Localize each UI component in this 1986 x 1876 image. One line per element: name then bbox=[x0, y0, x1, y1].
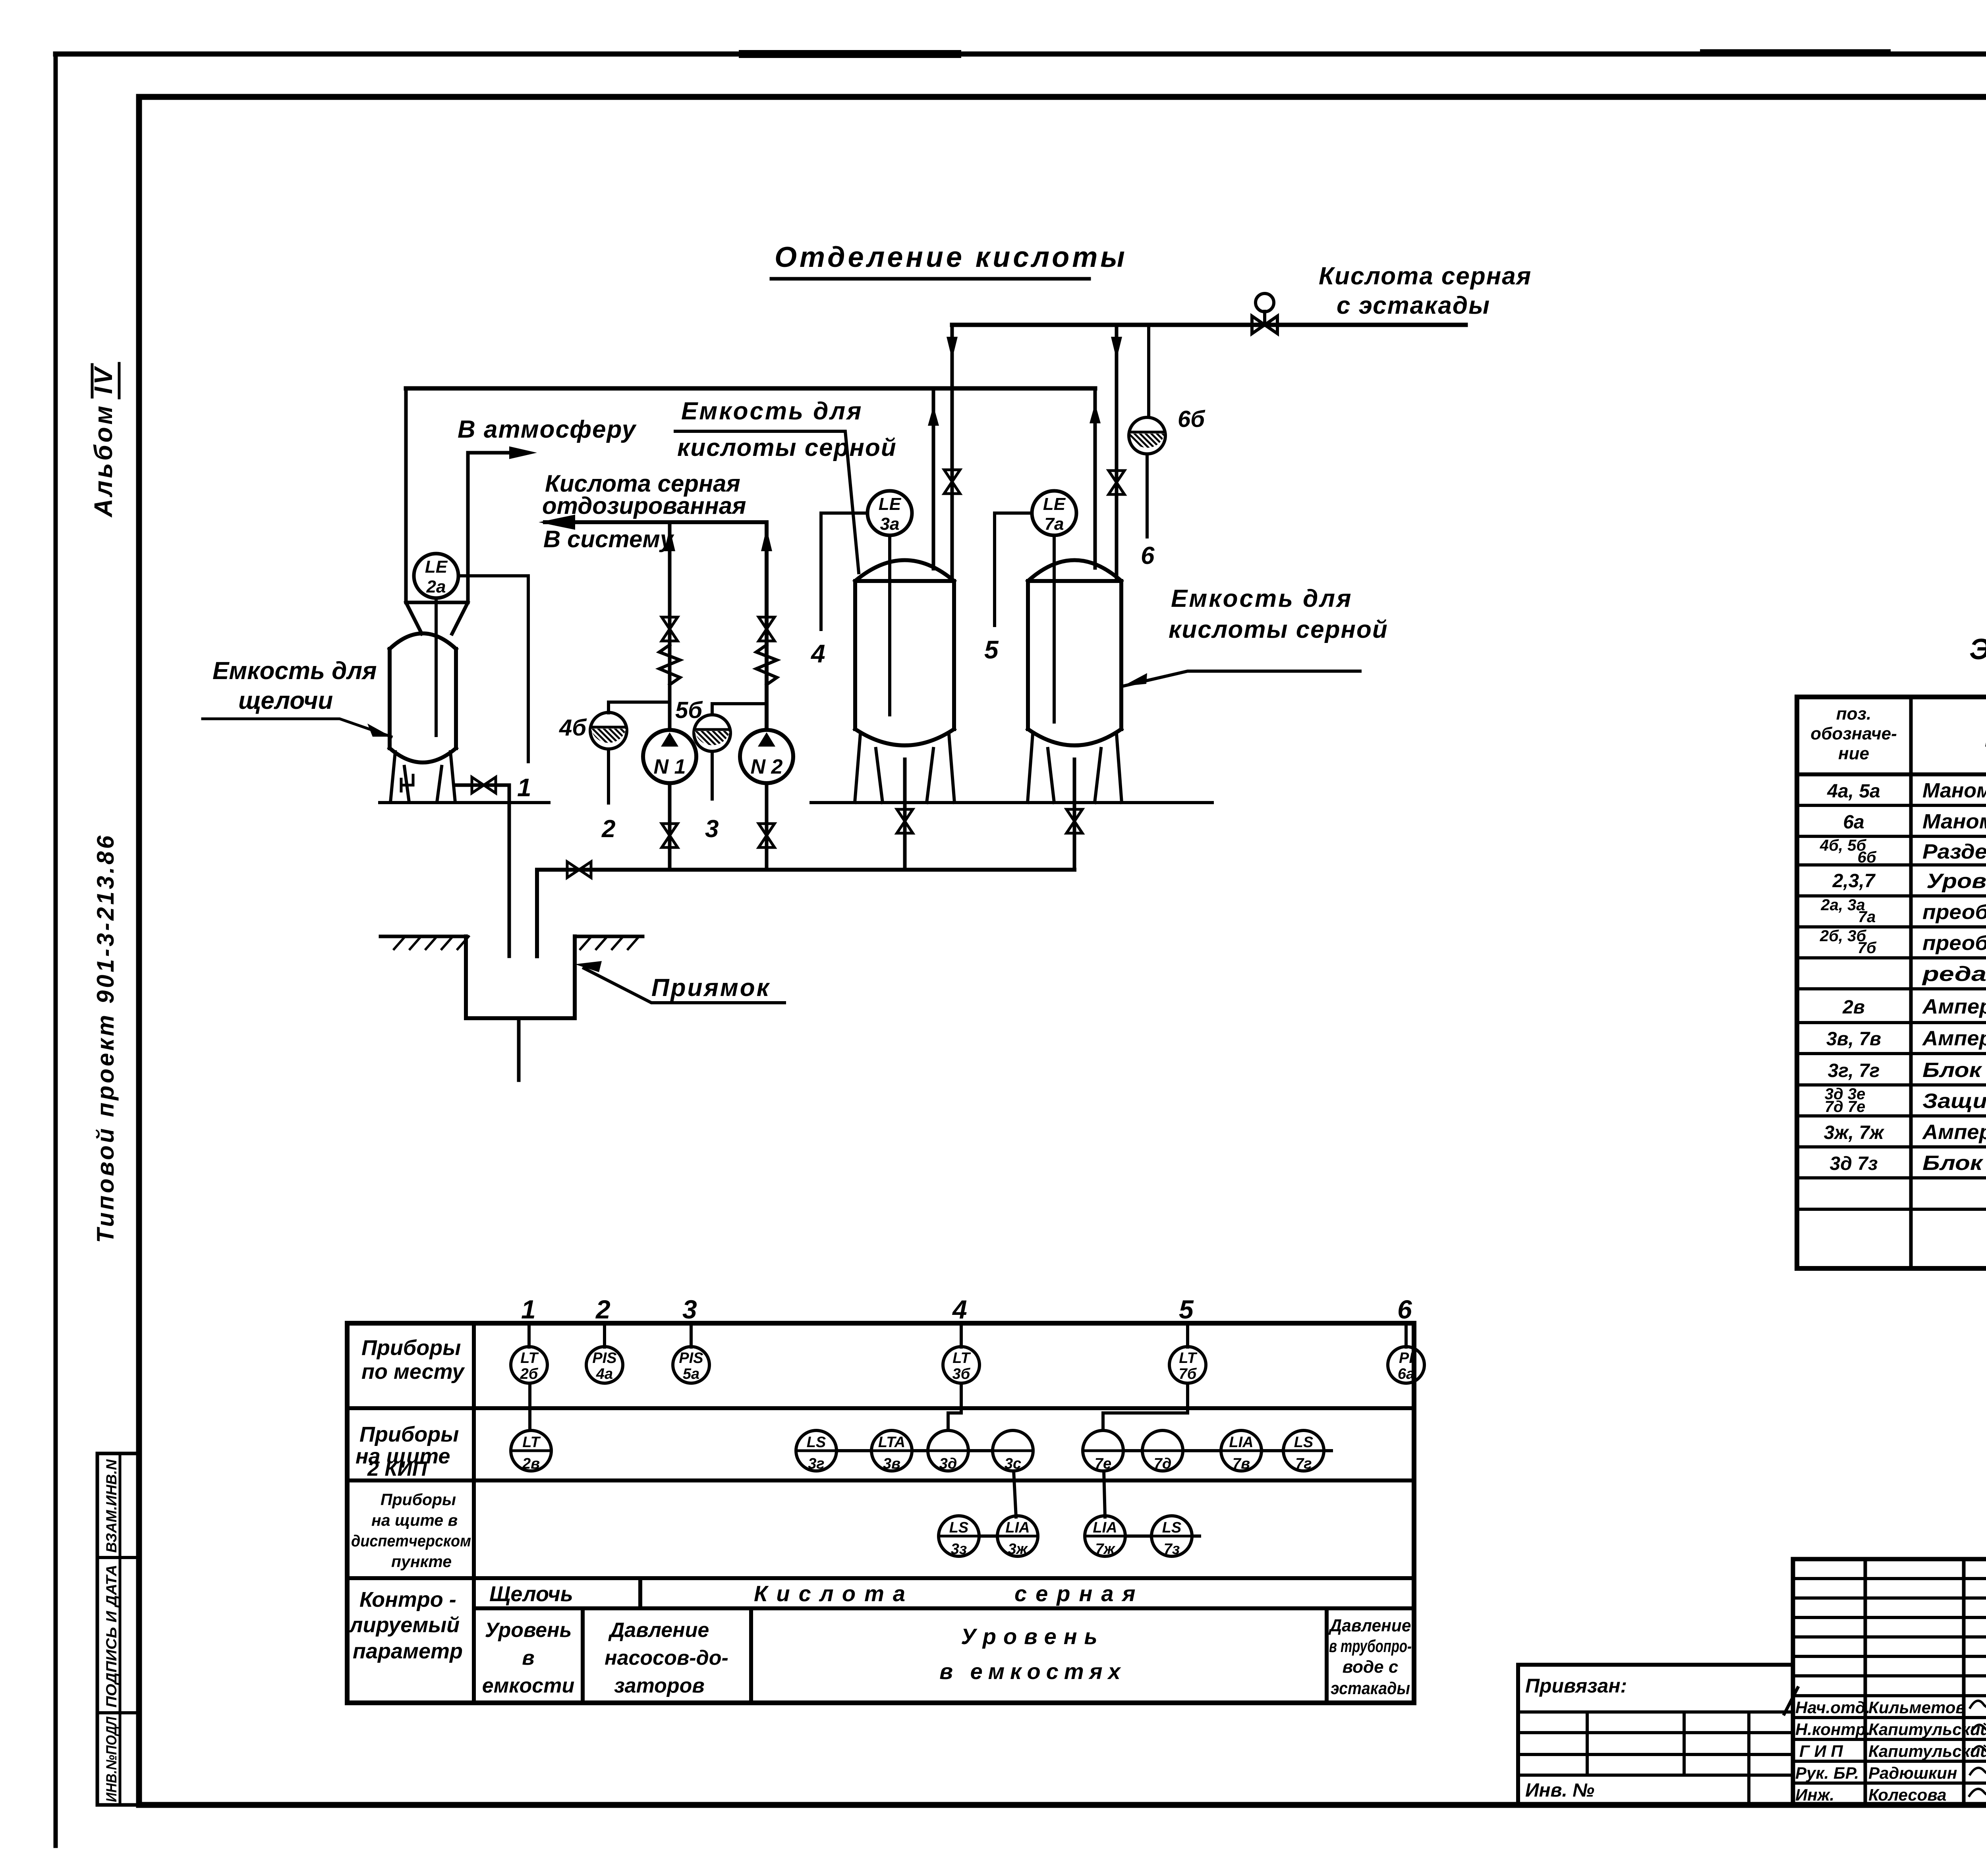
instrument circle LT 3б bbox=[943, 1347, 979, 1383]
svg-text:LT: LT bbox=[1179, 1350, 1197, 1366]
svg-text:Кильметов: Кильметов bbox=[1868, 1698, 1966, 1717]
svg-text:редающий ПИ-0-11: редающий ПИ-0-11 bbox=[1921, 963, 1986, 986]
svg-text:4а: 4а bbox=[596, 1366, 613, 1382]
svg-text:Инв. №: Инв. № bbox=[1525, 1780, 1594, 1801]
svg-text:6б: 6б bbox=[1178, 406, 1206, 432]
wire header pipe bbox=[406, 386, 1095, 391]
svg-text:N 1: N 1 bbox=[654, 755, 686, 778]
svg-text:Кислота: Кислота bbox=[754, 1581, 914, 1606]
svg-text:2а: 2а bbox=[426, 577, 446, 596]
svg-text:обозначе-: обозначе- bbox=[1810, 724, 1897, 743]
svg-text:2: 2 bbox=[595, 1295, 610, 1324]
svg-text:LS: LS bbox=[1162, 1519, 1182, 1536]
stamp column row line 2 bbox=[97, 1711, 139, 1714]
funnel on alkali tank bbox=[406, 602, 468, 634]
instrument circle LT 2в bbox=[511, 1430, 551, 1471]
wire 4б drop bbox=[607, 749, 610, 803]
tank 4 емкость для кислоты серной bbox=[855, 560, 954, 746]
svg-text:3ж: 3ж bbox=[1008, 1541, 1028, 1558]
svg-text:LTA: LTA bbox=[878, 1434, 905, 1451]
svg-text:Манометр электроконтактный ЭКМ: Манометр электроконтактный ЭКМ-1У bbox=[1922, 779, 1986, 802]
svg-text:3в: 3в bbox=[883, 1455, 900, 1472]
top acid pipe from эстакада bbox=[952, 323, 1466, 327]
instrument LE 2a bbox=[414, 554, 458, 598]
svg-text:3ж, 7ж: 3ж, 7ж bbox=[1824, 1122, 1885, 1143]
svg-text:2,3,7: 2,3,7 bbox=[1832, 870, 1876, 892]
svg-text:6: 6 bbox=[1141, 542, 1155, 569]
svg-text:2 КИП: 2 КИП bbox=[367, 1457, 428, 1480]
wire header drop to funnel bbox=[404, 388, 408, 602]
svg-text:PIS: PIS bbox=[679, 1350, 703, 1366]
membrane seal 4б bbox=[590, 712, 627, 749]
instrument circle PIS 5а bbox=[673, 1347, 709, 1383]
svg-text:LE: LE bbox=[879, 494, 902, 514]
instrument circle LIA 7в bbox=[1221, 1430, 1262, 1471]
svg-text:Амперметр трехпозиционный М173: Амперметр трехпозиционный М1730С bbox=[1922, 1121, 1986, 1144]
svg-text:PIS: PIS bbox=[592, 1350, 616, 1366]
svg-text:Отделение кислоты: Отделение кислоты bbox=[775, 241, 1128, 273]
svg-text:с эстакады: с эстакады bbox=[1337, 292, 1490, 319]
svg-text:Манометр показывающий МТП-160: Манометр показывающий МТП-160 bbox=[1922, 810, 1986, 833]
tank 5 емкость для кислоты серной bbox=[1028, 560, 1121, 746]
valve on collector bbox=[567, 862, 591, 878]
svg-text:В атмосферу: В атмосферу bbox=[458, 416, 637, 443]
svg-text:пункте: пункте bbox=[391, 1552, 452, 1571]
svg-text:7б: 7б bbox=[1857, 939, 1876, 957]
instrument circle LS 3г bbox=[796, 1430, 837, 1471]
title block personnel table frame bbox=[1793, 1559, 1986, 1805]
wire pump N2 discharge down bbox=[765, 783, 769, 870]
svg-text:Амперметр трехпозиционный М173: Амперметр трехпозиционный М1730 К bbox=[1922, 1027, 1986, 1050]
svg-text:3г, 7г: 3г, 7г bbox=[1828, 1060, 1880, 1081]
svg-text:3: 3 bbox=[705, 815, 719, 843]
svg-text:6а: 6а bbox=[1843, 812, 1864, 833]
tank 1 drain line to pit bbox=[456, 785, 509, 956]
flow arrow down on riser 4 bbox=[947, 337, 958, 359]
membrane seal 5б bbox=[694, 715, 730, 751]
svg-text:поз.: поз. bbox=[1836, 704, 1871, 724]
svg-text:LIA: LIA bbox=[1093, 1519, 1117, 1536]
svg-text:6: 6 bbox=[1397, 1295, 1412, 1324]
svg-text:Уровень: Уровень bbox=[485, 1619, 572, 1642]
svg-text:Приборы: Приборы bbox=[361, 1336, 461, 1360]
svg-text:N 2: N 2 bbox=[751, 755, 783, 778]
spring relief zigzag N1 bbox=[659, 645, 680, 685]
arrow up on N1 column bbox=[664, 528, 675, 551]
svg-text:диспетчерском: диспетчерском bbox=[351, 1532, 471, 1550]
svg-text:отдозированная: отдозированная bbox=[542, 492, 746, 519]
svg-text:LS: LS bbox=[807, 1434, 826, 1451]
wire below 6б bbox=[1146, 454, 1149, 537]
tank 1 drain stub bbox=[401, 775, 413, 791]
wire pump N1 column top bbox=[668, 522, 672, 730]
valve on riser 4 bbox=[944, 470, 960, 494]
svg-text:3а: 3а bbox=[880, 514, 900, 534]
leader to alkali tank bbox=[203, 719, 391, 737]
svg-text:LS: LS bbox=[1294, 1434, 1314, 1451]
discharge arrow left bbox=[539, 515, 575, 530]
wire riser to tank 5 bbox=[1115, 325, 1119, 581]
title underline bbox=[771, 277, 1089, 281]
instrument LE 3a bbox=[867, 491, 912, 535]
stamp column row line 1 bbox=[97, 1556, 139, 1559]
valve on N2 column bbox=[759, 617, 775, 641]
wire 7е to 7ж bbox=[1104, 1471, 1105, 1517]
wire LE3a tap to node 4 bbox=[821, 513, 867, 629]
svg-text:в емкостях: в емкостях bbox=[939, 1659, 1126, 1684]
svg-text:2б: 2б bbox=[520, 1366, 539, 1382]
svg-text:кислоты серной: кислоты серной bbox=[1169, 616, 1388, 643]
svg-text:лируемый: лируемый bbox=[348, 1613, 460, 1637]
svg-text:на щите в: на щите в bbox=[371, 1511, 458, 1529]
outer sheet border top bbox=[56, 52, 1986, 57]
svg-text:Рук. БР.: Рук. БР. bbox=[1795, 1764, 1859, 1782]
svg-text:Защитное устройство В-01: Защитное устройство В-01 bbox=[1922, 1090, 1986, 1113]
svg-text:Капитульский: Капитульский bbox=[1868, 1742, 1986, 1760]
valve under N1 bbox=[662, 824, 678, 847]
valve under N2 bbox=[759, 824, 775, 847]
svg-text:2в: 2в bbox=[522, 1455, 540, 1472]
instrument circle LS 7з bbox=[1151, 1516, 1192, 1556]
svg-text:Уровнемер РУС-О в составе:: Уровнемер РУС-О в составе: bbox=[1926, 870, 1986, 893]
instrument LE 7a bbox=[1032, 491, 1076, 535]
svg-text:3д: 3д bbox=[939, 1455, 957, 1472]
svg-text:Экспликация: Экспликация bbox=[1969, 633, 1986, 666]
valve on tank 1 drain bbox=[472, 777, 496, 793]
svg-text:5а: 5а bbox=[683, 1366, 699, 1382]
svg-text:3б: 3б bbox=[952, 1366, 971, 1382]
svg-text:Приямок: Приямок bbox=[651, 974, 771, 1002]
instrument circle LIA 3ж bbox=[997, 1516, 1038, 1556]
svg-text:Приборы: Приборы bbox=[381, 1490, 456, 1509]
svg-text:6а: 6а bbox=[1398, 1366, 1414, 1382]
ground line left of pit with hatching bbox=[381, 935, 466, 938]
svg-text:емкости: емкости bbox=[482, 1674, 574, 1697]
svg-text:7а: 7а bbox=[1045, 514, 1064, 534]
svg-text:3в, 7в: 3в, 7в bbox=[1826, 1029, 1881, 1050]
membrane seal 6б bbox=[1129, 417, 1165, 454]
wire links row 2 left group bbox=[837, 1449, 993, 1452]
wire LE7a tap to node 5 bbox=[995, 513, 1032, 625]
svg-text:Разделитель мембранный РМ-531: Разделитель мембранный РМ-5319 bbox=[1922, 840, 1986, 863]
svg-text:в трубопро-: в трубопро- bbox=[1329, 1637, 1412, 1656]
svg-text:7а: 7а bbox=[1858, 908, 1876, 926]
svg-text:Инж.: Инж. bbox=[1795, 1785, 1834, 1804]
stamp column boxes bottom-left bbox=[97, 1453, 139, 1805]
svg-text:3: 3 bbox=[682, 1295, 697, 1324]
svg-text:3з: 3з bbox=[951, 1541, 967, 1558]
instrument circle LIA 7ж bbox=[1085, 1516, 1125, 1556]
pump N1 bbox=[643, 730, 696, 783]
привязан box bbox=[1518, 1665, 1793, 1805]
label underline and leader to tank 4 bbox=[675, 431, 859, 573]
pit приямок bbox=[466, 936, 575, 1018]
wire links row 3 bbox=[979, 1534, 1200, 1538]
svg-text:Типовой проект 901-3-213.86: Типовой проект 901-3-213.86 bbox=[92, 833, 119, 1243]
svg-text:7б: 7б bbox=[1179, 1366, 1197, 1382]
svg-text:Контро -: Контро - bbox=[359, 1588, 456, 1612]
membrane seal 4б branch bbox=[609, 702, 670, 713]
svg-text:LT: LT bbox=[520, 1350, 539, 1366]
svg-text:7д 7е: 7д 7е bbox=[1825, 1098, 1866, 1116]
wire 2б to 2в bbox=[528, 1383, 531, 1430]
svg-text:5б: 5б bbox=[675, 697, 703, 723]
valve on N1 column bbox=[662, 617, 678, 641]
instrument circle 7е bbox=[1083, 1430, 1123, 1471]
svg-text:LT: LT bbox=[952, 1350, 971, 1366]
svg-text:Уровень: Уровень bbox=[961, 1624, 1105, 1649]
tank 5 legs bbox=[1028, 734, 1122, 803]
svg-text:ИНВ.№ПОДЛ: ИНВ.№ПОДЛ bbox=[103, 1716, 120, 1802]
svg-text:преобразователь первичный ПП-0: преобразователь первичный ПП-0-111 bbox=[1922, 901, 1986, 924]
svg-text:4б: 4б bbox=[559, 715, 587, 741]
wire LE7a dip tube bbox=[1053, 535, 1056, 722]
flow arrow up fill 5 bbox=[1090, 403, 1101, 423]
svg-text:Привязан:: Привязан: bbox=[1525, 1675, 1627, 1697]
suction collector pipe bbox=[537, 870, 1074, 956]
vent line to atmosphere bbox=[468, 453, 516, 602]
tank 5 drain with valve bbox=[1073, 759, 1076, 870]
svg-text:4: 4 bbox=[810, 639, 825, 668]
svg-text:в: в bbox=[522, 1646, 534, 1669]
wire 3б to 3д elbow bbox=[948, 1383, 961, 1430]
svg-text:3г: 3г bbox=[808, 1455, 824, 1472]
svg-text:Колесова: Колесова bbox=[1868, 1785, 1947, 1804]
svg-text:PI: PI bbox=[1399, 1350, 1414, 1366]
wire LE2a dip tube bbox=[435, 598, 438, 735]
flow arrow up fill 4 bbox=[928, 406, 939, 426]
instrument circle 3д bbox=[928, 1430, 968, 1471]
svg-text:7з: 7з bbox=[1164, 1541, 1180, 1558]
instrument circle LTA 3в bbox=[871, 1430, 912, 1471]
instrument rows table frame bbox=[347, 1323, 1414, 1703]
wire LE2a signal tap to line 1 bbox=[458, 576, 528, 762]
wire 7б to 7е elbow bbox=[1103, 1383, 1188, 1430]
ground line under tanks 4 and 5 bbox=[811, 801, 1212, 804]
dosed acid discharge line bbox=[545, 522, 767, 730]
svg-text:В систему: В систему bbox=[543, 526, 674, 552]
svg-text:щелочи: щелочи bbox=[238, 687, 333, 714]
svg-text:Блок трехпозиционный П1730: Блок трехпозиционный П1730 bbox=[1922, 1059, 1986, 1082]
svg-text:7ж: 7ж bbox=[1095, 1541, 1115, 1558]
wire 5б drop bbox=[711, 751, 714, 799]
leader from tank 5 wall to label bbox=[1122, 671, 1360, 686]
instrument circle PI 6а bbox=[1388, 1347, 1424, 1383]
svg-text:кислоты серной: кислоты серной bbox=[677, 434, 897, 461]
stamp column inner divider vertical bbox=[119, 1453, 122, 1805]
svg-text:6б: 6б bbox=[1857, 849, 1876, 866]
arrow up on N2 column bbox=[761, 528, 772, 551]
instrument circle 3с bbox=[993, 1430, 1033, 1471]
svg-text:4а, 5а: 4а, 5а bbox=[1827, 781, 1880, 802]
svg-text:Емкость для: Емкость для bbox=[1171, 585, 1353, 612]
svg-text:Нач.отд.: Нач.отд. bbox=[1795, 1698, 1870, 1717]
flow arrow down on riser 5 bbox=[1111, 337, 1122, 359]
svg-text:Щелочь: Щелочь bbox=[489, 1582, 573, 1606]
svg-text:по месту: по месту bbox=[361, 1360, 465, 1384]
tank 1 емкость для щелочи bbox=[390, 633, 456, 762]
svg-text:Кислота серная: Кислота серная bbox=[1319, 262, 1532, 290]
wire links row 2 right group bbox=[1123, 1449, 1331, 1452]
svg-text:ВЗАМ.ИНВ.N: ВЗАМ.ИНВ.N bbox=[103, 1459, 120, 1553]
top border tape smudge 2 bbox=[1700, 49, 1891, 56]
svg-text:LE: LE bbox=[425, 557, 448, 577]
svg-text:преобразователь измерительный: преобразователь измерительный пе- bbox=[1922, 932, 1986, 955]
tank 1 legs bbox=[390, 752, 455, 802]
globe valve with handwheel on top pipe bbox=[1252, 311, 1277, 334]
pump N2 bbox=[740, 730, 793, 783]
svg-text:ние: ние bbox=[1838, 744, 1869, 763]
leader arrow to pit bbox=[584, 968, 784, 1003]
pit drain line bbox=[517, 1018, 521, 1080]
svg-text:LIA: LIA bbox=[1005, 1519, 1030, 1536]
tank 4 drain with valve bbox=[903, 759, 907, 870]
svg-text:Емкость для: Емкость для bbox=[681, 398, 863, 425]
instrument circle LS 7г bbox=[1283, 1430, 1324, 1471]
svg-text:Радюшкин: Радюшкин bbox=[1868, 1764, 1957, 1782]
svg-text:1: 1 bbox=[521, 1295, 536, 1324]
svg-text:серная: серная bbox=[1014, 1581, 1144, 1606]
svg-text:Капитульский: Капитульский bbox=[1868, 1720, 1986, 1739]
instrument circle 7д bbox=[1142, 1430, 1183, 1471]
wire to membrane seal 6б bbox=[1147, 325, 1150, 417]
membrane seal 5б branch bbox=[712, 704, 767, 715]
wire fill line tank 5 (header corner) bbox=[1093, 388, 1097, 568]
IV overline/underline bbox=[92, 363, 119, 398]
svg-text:7в: 7в bbox=[1233, 1455, 1250, 1472]
svg-text:Давление: Давление bbox=[1328, 1616, 1411, 1635]
svg-text:1: 1 bbox=[517, 773, 531, 802]
ground line under tank 1 bbox=[380, 801, 549, 804]
svg-text:Амперметр сигнализирующий М173: Амперметр сигнализирующий М1730С bbox=[1922, 995, 1986, 1018]
svg-text:параметр: параметр bbox=[353, 1639, 463, 1663]
outer sheet border left bbox=[54, 54, 58, 1846]
instrument circle LT 7б bbox=[1169, 1347, 1206, 1383]
svg-text:Емкость для: Емкость для bbox=[213, 657, 377, 685]
instrument circle LS 3з bbox=[939, 1516, 979, 1556]
wire LE3a dip tube bbox=[888, 535, 891, 715]
valve on riser 5 bbox=[1109, 471, 1124, 494]
top border tape smudge 1 bbox=[739, 50, 961, 58]
svg-text:ПОДПИСЬ И ДАТА: ПОДПИСЬ И ДАТА bbox=[103, 1565, 120, 1708]
svg-text:Блок трехпозиционный П 1730: Блок трехпозиционный П 1730 bbox=[1922, 1152, 1986, 1175]
svg-text:насосов-до-: насосов-до- bbox=[605, 1646, 728, 1669]
explication table frame bbox=[1797, 697, 1986, 1268]
svg-text:Г И П: Г И П bbox=[1799, 1742, 1843, 1760]
svg-text:3д 7з: 3д 7з bbox=[1830, 1153, 1878, 1174]
wire riser to tank 4 bbox=[950, 325, 954, 581]
ground line right of pit with hatching bbox=[575, 935, 643, 938]
tank 4 legs bbox=[855, 734, 954, 803]
svg-text:LIA: LIA bbox=[1229, 1434, 1253, 1451]
svg-text:4: 4 bbox=[952, 1295, 967, 1324]
svg-text:LE: LE bbox=[1043, 494, 1066, 514]
svg-text:Давление: Давление bbox=[608, 1619, 709, 1642]
spring relief zigzag N2 bbox=[756, 645, 777, 685]
tick mark bbox=[1784, 1688, 1798, 1714]
svg-text:Приборы: Приборы bbox=[359, 1422, 459, 1446]
instrument circle PIS 4а bbox=[586, 1347, 623, 1383]
svg-text:7д: 7д bbox=[1154, 1455, 1172, 1472]
wire fill line tank 4 bbox=[932, 388, 935, 569]
wire 3с to 3ж bbox=[1014, 1471, 1016, 1517]
svg-text:2в: 2в bbox=[1842, 997, 1865, 1018]
wire pump N1 discharge down bbox=[668, 783, 672, 870]
instrument circle LT 2б bbox=[511, 1347, 547, 1383]
svg-text:7г: 7г bbox=[1295, 1455, 1312, 1472]
svg-text:5: 5 bbox=[984, 635, 999, 664]
svg-text:заторов: заторов bbox=[614, 1674, 705, 1697]
vent arrow right bbox=[509, 446, 537, 459]
svg-text:LS: LS bbox=[949, 1519, 969, 1536]
svg-text:LT: LT bbox=[522, 1434, 541, 1451]
svg-text:2: 2 bbox=[601, 815, 615, 843]
svg-text:Н.контр.: Н.контр. bbox=[1795, 1720, 1870, 1739]
svg-text:воде с: воде с bbox=[1343, 1657, 1399, 1677]
svg-text:5: 5 bbox=[1179, 1295, 1194, 1324]
svg-text:эстакады: эстакады bbox=[1331, 1679, 1410, 1698]
